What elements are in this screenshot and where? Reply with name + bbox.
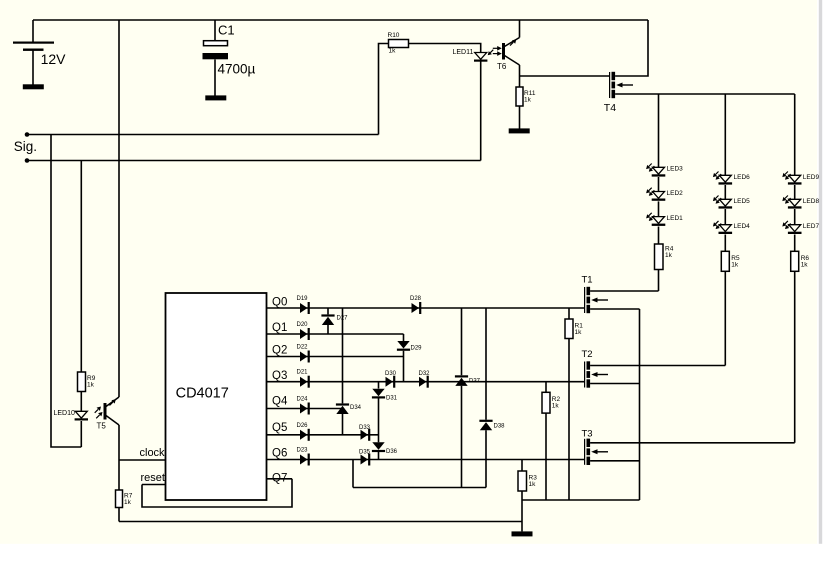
wire R10 to LED11	[409, 44, 481, 53]
wire T2 source to source bus	[590, 383, 639, 385]
wire R9 to LED10	[80, 392, 82, 412]
svg-text:1k: 1k	[87, 382, 95, 389]
pin Q0	[272, 297, 287, 309]
wire D34 column Q0 to Q5	[342, 308, 344, 435]
resistor R5 1k	[721, 251, 740, 271]
ground battery	[23, 84, 44, 89]
LED LED6	[713, 172, 750, 185]
wire row Q4	[267, 408, 343, 410]
svg-text:D22: D22	[297, 345, 309, 351]
wire left loop x51	[51, 135, 81, 448]
svg-text:T5: T5	[97, 422, 107, 431]
svg-text:Sig.: Sig.	[14, 139, 37, 154]
svg-text:D33: D33	[359, 425, 371, 431]
wire Q7 stub	[267, 478, 293, 480]
svg-text:4700µ: 4700µ	[218, 62, 256, 77]
svg-text:LED11: LED11	[453, 49, 474, 56]
pin Q6	[272, 448, 287, 460]
svg-text:Q0: Q0	[272, 297, 287, 309]
svg-text:CD4017: CD4017	[176, 386, 229, 402]
resistor R1 1k	[565, 319, 583, 339]
svg-text:D30: D30	[385, 371, 397, 377]
ground R11	[509, 128, 530, 133]
wire D31 D36 column	[378, 382, 380, 460]
wire row Q5	[267, 434, 379, 436]
svg-text:D31: D31	[386, 396, 398, 402]
svg-text:1k: 1k	[389, 48, 397, 55]
LED LED8	[782, 196, 819, 209]
diode D21	[297, 370, 310, 388]
resistor R10 1k	[388, 32, 409, 55]
wire row Q0 to T1 gate	[267, 307, 585, 309]
diode D30	[385, 371, 397, 388]
svg-text:Q7: Q7	[272, 473, 287, 485]
svg-text:LED2: LED2	[667, 190, 684, 197]
wire LED11 cathode down to Sig2	[480, 61, 482, 160]
svg-text:LED5: LED5	[734, 198, 751, 205]
transistor T6 phototransistor	[493, 38, 520, 72]
diode D24	[297, 397, 310, 415]
wire T2 drain to column2	[590, 365, 725, 367]
wire T4 source LED supply bus	[615, 93, 795, 95]
svg-text:LED9: LED9	[803, 174, 820, 181]
svg-text:T6: T6	[497, 62, 507, 71]
wire D38 column	[485, 308, 487, 488]
svg-text:Q1: Q1	[272, 322, 287, 334]
svg-text:1k: 1k	[529, 481, 537, 488]
wire reset loop	[142, 479, 292, 507]
MOSFET T1	[582, 275, 609, 314]
diode D34	[336, 403, 362, 414]
wire source bus vertical	[639, 309, 641, 500]
wire T3 source to source bus	[590, 460, 639, 462]
wire R2 bottom to common	[545, 413, 547, 500]
svg-text:LED7: LED7	[803, 223, 820, 230]
LED LED4	[713, 221, 750, 234]
wire R3 bottom to ground	[521, 491, 523, 531]
svg-text:D26: D26	[297, 423, 309, 429]
pin Q1	[272, 322, 287, 334]
resistor R9 1k	[78, 372, 96, 392]
wire T6 emitter node down to R11	[519, 65, 521, 87]
wire row Q3 to T2 gate	[267, 381, 585, 383]
diode D23	[297, 448, 310, 466]
pin Q2	[272, 345, 287, 357]
svg-text:12V: 12V	[41, 51, 67, 67]
resistor R6 1k	[791, 251, 810, 271]
ground C1	[205, 95, 226, 100]
wire T3 drain to column3	[590, 442, 795, 444]
wire row Q1	[267, 333, 404, 335]
diode D29	[397, 341, 422, 352]
wire matrix bottom link	[353, 487, 486, 489]
svg-text:LED4: LED4	[734, 223, 751, 230]
svg-text:Q5: Q5	[272, 422, 287, 434]
wire D27 column	[327, 308, 329, 334]
pin Q5	[272, 422, 287, 434]
LED LED2	[646, 188, 683, 201]
svg-text:D37: D37	[469, 379, 481, 385]
svg-text:R10: R10	[388, 32, 400, 39]
svg-text:D29: D29	[411, 346, 423, 352]
LED LED10	[54, 407, 103, 421]
wire vertical x119 rail to T5 collector	[118, 20, 120, 397]
svg-text:C1: C1	[218, 23, 235, 38]
svg-text:reset: reset	[141, 472, 165, 484]
svg-text:D35: D35	[359, 450, 371, 456]
wire T5 emitter down to clock node	[118, 425, 120, 460]
LED LED9	[782, 172, 819, 185]
wire bottom ground bus	[119, 521, 522, 523]
wire R10 left leg	[379, 44, 389, 135]
svg-text:LED1: LED1	[667, 215, 684, 222]
LED LED7	[782, 221, 819, 234]
svg-text:D27: D27	[337, 316, 349, 322]
LED LED1	[646, 213, 683, 226]
wire C1 top stub	[214, 20, 216, 41]
svg-text:D36: D36	[386, 449, 398, 455]
svg-text:D32: D32	[419, 371, 431, 377]
svg-text:D24: D24	[297, 397, 309, 403]
wire common source to ground node	[522, 499, 640, 501]
op-amp U1 IC CD4017 box	[166, 293, 267, 500]
svg-text:Q4: Q4	[272, 396, 288, 408]
pin reset	[141, 472, 165, 484]
wire clock into IC	[119, 459, 166, 461]
svg-text:D20: D20	[297, 322, 309, 328]
wire T6 collector to rail	[519, 20, 521, 38]
svg-text:T1: T1	[582, 275, 593, 286]
wire row Q6 to T3 gate	[267, 459, 585, 461]
transistor T5 phototransistor	[97, 397, 120, 431]
svg-text:1k: 1k	[801, 262, 809, 269]
wire Sig line 2	[27, 160, 481, 162]
pin Q3	[272, 370, 287, 382]
pin Q4	[272, 396, 288, 408]
diode D27	[321, 314, 348, 325]
wire R3 top stub	[521, 460, 523, 472]
LED LED11	[453, 49, 494, 62]
right grey scrollbar strip	[819, 0, 822, 544]
svg-text:1k: 1k	[731, 262, 739, 269]
svg-text:LED10: LED10	[54, 410, 76, 417]
LED LED3	[646, 164, 683, 177]
wire Sig line 1	[27, 134, 379, 136]
MOSFET T3	[582, 428, 609, 465]
svg-text:LED8: LED8	[803, 198, 820, 205]
svg-text:Q6: Q6	[272, 448, 287, 460]
wire battery top	[32, 20, 34, 42]
diode D31	[372, 389, 398, 402]
wire LED column1 segments	[658, 94, 660, 291]
wire battery bottom	[32, 51, 34, 85]
diode D20	[297, 322, 310, 340]
svg-text:1k: 1k	[524, 97, 532, 104]
wire D37 column	[461, 308, 463, 488]
wire T1 drain to column1	[590, 290, 658, 292]
resistor R2 1k	[542, 392, 560, 413]
wire R7 bottom	[118, 508, 120, 522]
wire C1 to ground	[214, 60, 216, 96]
wire R1 bottom to common	[568, 339, 570, 501]
pin clock	[140, 447, 166, 459]
svg-text:Q3: Q3	[272, 370, 287, 382]
wire clock node down to R7	[118, 460, 120, 490]
svg-text:1k: 1k	[665, 252, 673, 259]
capacitor C1	[203, 23, 256, 77]
svg-text:1k: 1k	[552, 403, 560, 410]
wire LED column3 segments	[794, 94, 796, 443]
resistor R3 1k	[518, 471, 537, 491]
svg-text:D23: D23	[297, 448, 309, 454]
MOSFET T2	[582, 349, 609, 388]
ground main	[512, 531, 533, 536]
resistor R7 1k	[116, 490, 133, 508]
svg-text:1k: 1k	[575, 329, 583, 336]
svg-text:T3: T3	[582, 428, 593, 439]
svg-text:D19: D19	[297, 296, 309, 302]
wire D29 column Q1 to Q3	[403, 334, 405, 382]
diode D33	[359, 425, 371, 441]
diode D35	[359, 450, 371, 466]
svg-text:T2: T2	[582, 349, 593, 360]
svg-text:D38: D38	[494, 423, 506, 429]
svg-text:LED6: LED6	[734, 174, 751, 181]
wire R2 top stub	[545, 382, 547, 393]
svg-text:T4: T4	[604, 102, 616, 114]
MOSFET T4	[604, 72, 633, 114]
wire T4 drain to rail corner	[615, 20, 648, 76]
diode D22	[297, 345, 310, 363]
wire row Q2	[267, 356, 404, 358]
wire LED10 to loop	[80, 421, 82, 447]
wire R1 top stub	[568, 308, 570, 319]
wire +12V top rail	[33, 19, 648, 21]
battery 12V	[13, 42, 66, 68]
diode D38	[479, 420, 505, 431]
svg-text:D28: D28	[410, 296, 422, 302]
svg-text:1k: 1k	[124, 499, 132, 506]
diode D32	[419, 371, 431, 388]
wire T6 emitter to T4 gate	[520, 75, 610, 77]
pin Q7	[272, 473, 287, 485]
diode D19	[297, 296, 310, 314]
svg-text:clock: clock	[140, 447, 166, 459]
diode D28	[410, 296, 422, 314]
wire LED column2 segments	[724, 94, 726, 366]
svg-text:Q2: Q2	[272, 345, 287, 357]
wire x81 Sig2 to R9	[80, 161, 82, 373]
diode D26	[297, 423, 310, 441]
wire R11 to ground	[519, 106, 521, 129]
resistor R4 1k	[655, 244, 674, 270]
diode D37	[455, 375, 481, 386]
LED LED5	[713, 196, 750, 209]
svg-text:LED3: LED3	[667, 166, 684, 173]
node Sig	[14, 132, 37, 163]
wire T1 source to source bus	[590, 308, 639, 310]
resistor R11 1k	[516, 87, 536, 106]
diode D36	[372, 442, 398, 455]
svg-text:D21: D21	[297, 370, 309, 376]
wire x353 column	[352, 460, 354, 488]
svg-text:D34: D34	[350, 405, 362, 411]
